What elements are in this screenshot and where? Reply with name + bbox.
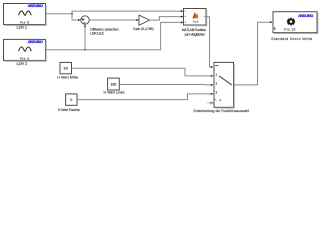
gain triangle Gain (0.1786) [139,15,150,25]
wire 180 to switch input 2 [119,84,212,86]
control port tick [215,64,218,66]
svg-text:H Wert Mitte: H Wert Mitte [57,76,78,80]
svg-text:Pin 10: Pin 10 [284,27,295,31]
svg-text:Pin 5: Pin 5 [20,56,29,60]
svg-text:90: 90 [64,67,68,71]
wire LDR1 output to junction [46,13,73,15]
constant 90 H Wert Mitte [60,62,72,73]
wire junction A up to MATLAB input 1 [72,11,183,14]
unconnected port 4 stub [208,102,211,104]
svg-text:zum Vergleichen: zum Vergleichen [184,32,205,36]
servo block Standard Servo Write [273,12,318,34]
gear icon [287,18,295,26]
wire sum output to gain [89,19,138,21]
junction dot B [84,49,86,51]
wire junction A down to sum + input [72,14,80,20]
constant 180 H Wert Links [108,78,120,90]
svg-text:Standard Servo Write: Standard Servo Write [271,37,312,41]
svg-text:Entscheidung der Funktionsausw: Entscheidung der Funktionsauswahl [194,109,250,113]
wire 0 to switch input 3 [77,94,212,100]
wire MATLAB output down to switch control [206,17,212,67]
sum block [81,16,89,24]
constant 0 H Wert Rechts [66,94,77,105]
switch diagonal [219,76,232,85]
svg-text:LDR 1: LDR 1 [17,26,28,30]
wire switch output to servo [234,22,272,85]
wire gain output to MATLAB input 2 [150,17,183,21]
MATLAB Function block U1 [184,9,207,26]
svg-text:H Wert Links: H Wert Links [104,91,125,95]
svg-text:ARDUINO: ARDUINO [28,40,43,44]
wire junction B up to sum - input [84,26,86,50]
junction dot A [71,13,73,15]
svg-text:Pin 8: Pin 8 [20,20,29,24]
svg-text:0: 0 [70,98,72,102]
svg-text:180: 180 [111,83,117,87]
svg-text:LDR 1 & 2: LDR 1 & 2 [90,31,104,35]
svg-text:LDR 2: LDR 2 [17,62,28,66]
wire LDR2 output to junction [46,49,86,51]
svg-text:fcn: fcn [193,20,199,24]
block LDR 1 (Arduino Analog Input, Pin 8) [4,4,47,26]
block LDR 2 (Arduino Analog Input, Pin 5) [4,39,47,61]
input port glyph [274,27,276,30]
svg-text:H Wert Rechts: H Wert Rechts [58,108,80,112]
svg-text:*, 4: *, 4 [215,98,221,102]
MATLAB logo [193,12,199,18]
svg-text:Gain (0.1786): Gain (0.1786) [133,27,154,31]
svg-text:ARDUINO: ARDUINO [28,4,43,8]
multiport switch [208,62,235,108]
svg-text:ARDUINO: ARDUINO [298,14,313,18]
wire junction B right to MATLAB input 3 [85,22,183,49]
wire 90 to switch input 1 [72,68,213,76]
tiny port name marks [185,11,187,12]
